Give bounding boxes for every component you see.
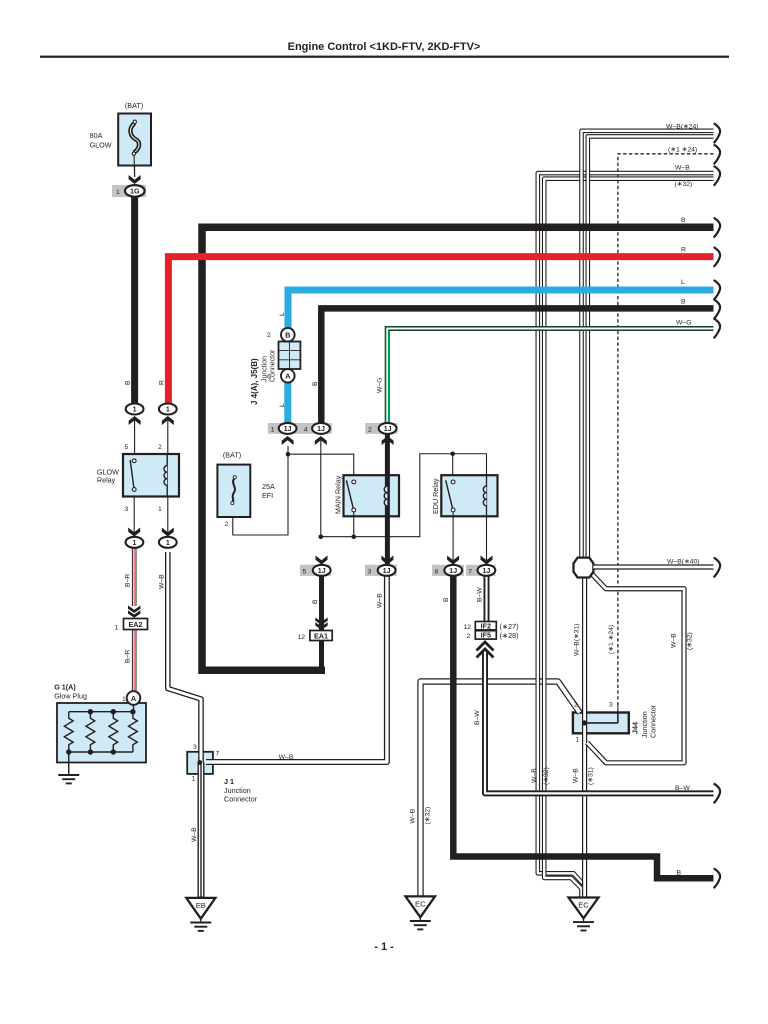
svg-text:G 1(A): G 1(A) — [54, 683, 76, 692]
svg-text:IF2: IF2 — [481, 622, 491, 631]
svg-text:A: A — [285, 372, 291, 381]
svg-text:1: 1 — [576, 737, 580, 744]
svg-text:Relay: Relay — [97, 476, 116, 485]
svg-text:W–B: W–B — [279, 754, 294, 761]
svg-text:1: 1 — [166, 407, 170, 414]
svg-text:1J: 1J — [318, 568, 326, 575]
svg-text:MAIN Relay: MAIN Relay — [334, 475, 343, 514]
svg-text:1J: 1J — [383, 568, 391, 575]
svg-text:L: L — [279, 403, 286, 407]
svg-text:W–G: W–G — [377, 378, 384, 393]
svg-text:B–R: B–R — [125, 650, 132, 663]
svg-text:1: 1 — [116, 189, 120, 196]
svg-text:L: L — [681, 279, 685, 286]
svg-text:W–B: W–B — [675, 165, 690, 172]
svg-text:- 1 -: - 1 - — [374, 941, 394, 953]
svg-text:8: 8 — [435, 569, 439, 576]
svg-text:W–B: W–B — [159, 574, 166, 589]
svg-text:1: 1 — [115, 625, 119, 632]
svg-text:1: 1 — [133, 407, 137, 414]
svg-text:1: 1 — [132, 540, 136, 547]
svg-text:Connector: Connector — [649, 704, 658, 738]
svg-text:2: 2 — [225, 521, 229, 528]
svg-text:6: 6 — [267, 374, 271, 381]
svg-text:J44: J44 — [631, 722, 640, 734]
svg-text:1: 1 — [192, 776, 196, 783]
svg-text:2: 2 — [368, 427, 372, 434]
svg-text:W–B: W–B — [410, 808, 417, 823]
svg-text:Glow Plug: Glow Plug — [54, 692, 87, 701]
svg-text:EC: EC — [415, 900, 426, 909]
svg-text:B–W: B–W — [477, 587, 484, 602]
svg-text:R: R — [159, 380, 166, 385]
svg-text:EDU Relay: EDU Relay — [431, 478, 440, 514]
svg-text:B: B — [677, 870, 682, 877]
svg-text:1: 1 — [122, 696, 126, 703]
svg-text:B–R: B–R — [125, 574, 132, 587]
svg-text:GLOW: GLOW — [90, 141, 112, 150]
svg-text:1J: 1J — [284, 426, 292, 433]
svg-text:4: 4 — [304, 427, 308, 434]
svg-text:1G: 1G — [130, 189, 140, 196]
svg-text:(∗32): (∗32) — [543, 767, 550, 785]
svg-text:3: 3 — [193, 744, 197, 751]
svg-text:5: 5 — [303, 569, 307, 576]
svg-text:1J: 1J — [384, 426, 392, 433]
svg-text:2: 2 — [158, 444, 162, 451]
svg-text:B: B — [443, 597, 450, 602]
svg-text:1: 1 — [166, 540, 170, 547]
svg-text:(∗27): (∗27) — [500, 622, 519, 631]
svg-text:(∗32): (∗32) — [687, 632, 694, 650]
svg-text:W–B: W–B — [191, 827, 198, 842]
svg-text:B: B — [125, 380, 132, 385]
svg-text:(BAT): (BAT) — [223, 451, 241, 460]
svg-text:W–B(∗40): W–B(∗40) — [667, 559, 700, 566]
svg-text:B: B — [681, 217, 686, 224]
svg-text:W–B: W–B — [573, 768, 580, 783]
svg-text:7: 7 — [468, 569, 472, 576]
svg-text:3: 3 — [368, 569, 372, 576]
svg-text:2: 2 — [574, 702, 578, 709]
svg-text:12: 12 — [298, 634, 306, 641]
svg-text:J 1: J 1 — [224, 777, 234, 786]
svg-text:3: 3 — [609, 702, 613, 709]
svg-text:1J: 1J — [317, 426, 325, 433]
svg-text:W–B(∗24): W–B(∗24) — [666, 124, 699, 131]
svg-text:W–G: W–G — [676, 320, 691, 327]
svg-text:R: R — [681, 246, 686, 253]
svg-text:3: 3 — [125, 506, 129, 513]
svg-text:5: 5 — [125, 444, 129, 451]
svg-text:EFI: EFI — [262, 491, 273, 500]
svg-text:B: B — [312, 381, 319, 386]
svg-text:L: L — [279, 312, 286, 316]
svg-text:(∗28): (∗28) — [500, 631, 519, 640]
svg-text:7: 7 — [216, 751, 220, 758]
svg-text:B: B — [285, 331, 290, 340]
svg-text:1: 1 — [158, 506, 162, 513]
svg-text:(BAT): (BAT) — [125, 101, 143, 110]
svg-text:J 4(A), J5(B): J 4(A), J5(B) — [250, 358, 259, 405]
svg-text:W–B: W–B — [671, 633, 678, 648]
svg-text:W–B(∗31): W–B(∗31) — [574, 623, 581, 656]
svg-text:W–B: W–B — [531, 768, 538, 783]
svg-text:Engine Control <1KD-FTV, 2KD-F: Engine Control <1KD-FTV, 2KD-FTV> — [288, 41, 481, 53]
svg-text:B: B — [681, 298, 686, 305]
svg-text:80A: 80A — [90, 131, 103, 140]
svg-text:B: B — [312, 599, 319, 604]
svg-text:2: 2 — [467, 633, 471, 640]
svg-text:1J: 1J — [449, 568, 457, 575]
svg-text:(∗31): (∗31) — [588, 767, 595, 785]
svg-text:A: A — [131, 694, 137, 703]
svg-text:W–B: W–B — [377, 593, 384, 608]
svg-text:EC: EC — [578, 901, 589, 910]
svg-text:25A: 25A — [262, 482, 275, 491]
svg-text:EB: EB — [196, 901, 206, 910]
svg-text:1J: 1J — [483, 568, 491, 575]
svg-text:(∗32): (∗32) — [675, 181, 693, 188]
svg-text:B–W: B–W — [474, 710, 481, 725]
svg-text:(∗1 ∗24): (∗1 ∗24) — [668, 146, 697, 153]
svg-text:EA2: EA2 — [129, 620, 143, 629]
svg-text:Connector: Connector — [224, 795, 258, 804]
svg-text:EA1: EA1 — [314, 632, 328, 641]
svg-text:2: 2 — [267, 332, 271, 339]
svg-text:B–W: B–W — [675, 785, 690, 792]
svg-text:IF5: IF5 — [481, 631, 491, 640]
svg-text:12: 12 — [464, 624, 472, 631]
svg-text:(∗1 ∗24): (∗1 ∗24) — [608, 625, 615, 654]
svg-text:(∗32): (∗32) — [425, 807, 432, 825]
svg-text:1: 1 — [271, 427, 275, 434]
